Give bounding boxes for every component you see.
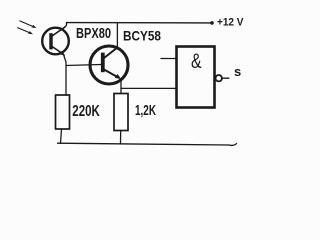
wire Q1 collector to +12V rail [65,23,67,27]
svg-text:BCY58: BCY58 [123,28,161,43]
wire output to s [222,77,229,79]
nand gate U1 [177,47,215,108]
resistor R1 220K [56,95,70,129]
transistor Q2 BCY58 [90,46,128,84]
phototransistor Q1 BPX80 [42,27,69,56]
wire R1 bottom to ground rail [61,129,62,143]
svg-text:1,2K: 1,2K [135,103,156,119]
svg-text:BPX80: BPX80 [76,26,111,42]
svg-text:+12 V: +12 V [217,17,244,29]
node +12V terminal dot [210,21,214,25]
wire Q2 emitter to node B [120,80,122,94]
light arrow 1 [20,21,37,28]
wire node A to Q2 base [66,65,101,66]
wire Q1 emitter down to node A [64,55,67,96]
ground rail [58,143,237,145]
wire Q2 collector to +12V rail [116,23,118,47]
+12V rail [67,22,213,24]
output bubble [216,75,222,81]
svg-text:&: & [191,50,202,73]
wire node B to gate lower input [121,87,177,89]
resistor R2 12K [114,94,128,131]
wire R2 bottom to ground rail [120,131,122,145]
svg-text:220K: 220K [72,103,100,120]
svg-text:s: s [234,64,241,79]
gate upper input stub [161,58,177,60]
light arrow 2 [18,28,33,35]
